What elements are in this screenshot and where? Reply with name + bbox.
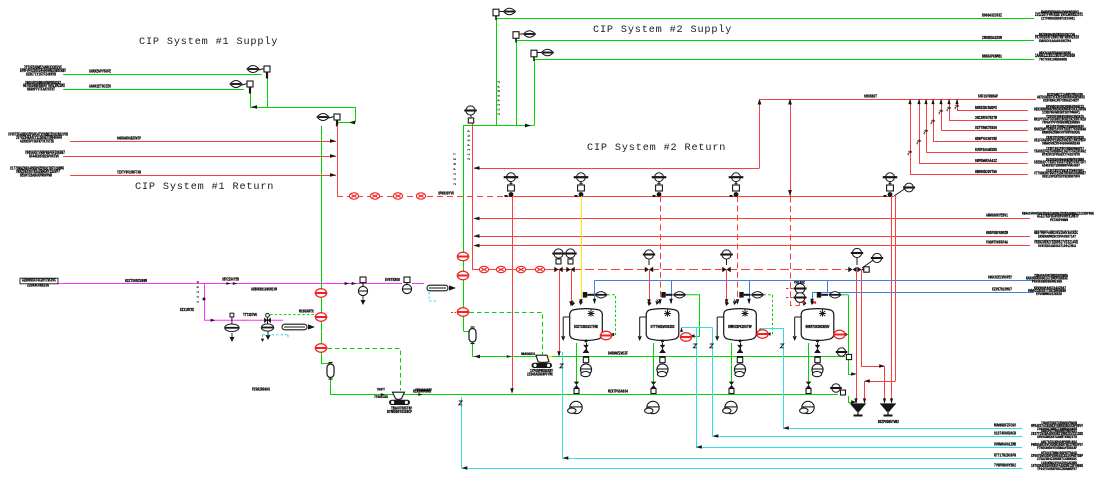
svg-text:DCKYCGDSU1TFHE: DCKYCGDSU1TFHE	[574, 326, 598, 330]
wire fanout vertical x957	[957, 99, 959, 110]
svg-text:04KR4K9ABZ5W7P: 04KR4K9ABZ5W7P	[117, 136, 141, 141]
wire red stub station SC6	[451, 312, 456, 314]
valve LV1 x558.5	[558, 258, 560, 264]
wire fanout branch y130	[941, 130, 1028, 132]
svg-text:3BYZZGCYEN: 3BYZZGCYEN	[222, 278, 239, 283]
svg-text:A34EFEUY2DWBN0VVWU43D7: A34EFEUY2DWBN0VVWU43D7	[1042, 165, 1081, 169]
svg-text:RTR29C2FFEAEX7T4ZEY5YU: RTR29C2FFEAEX7T4ZEY5YU	[1042, 154, 1081, 158]
wire cyan riser x712	[712, 328, 714, 437]
wire CIP1 return 1 y141	[70, 141, 336, 143]
pump lower P x809	[800, 401, 815, 413]
tank TK1 pre-rinse level leg	[563, 317, 570, 336]
tee marks column x740	[737, 353, 743, 357]
wire riser x790	[790, 99, 792, 196]
svg-text:TP44YCVGR3FHSCZBUWWNFS7: TP44YCVGR3FHSCZBUWWNFS7	[1037, 468, 1078, 472]
wire drop x355	[355, 107, 357, 123]
valve TV2 tank2 inlet	[661, 292, 665, 298]
pump lower P x732	[723, 401, 738, 413]
wire drop x496	[496, 18, 498, 126]
wire fanout branch y152	[926, 152, 1028, 154]
arrow at junction y107	[251, 105, 257, 109]
svg-text:3P8N39YVU: 3P8N39YVU	[438, 191, 454, 196]
pump upper P x740	[734, 364, 745, 377]
arrow main1 start	[474, 355, 480, 359]
pump upper P x586	[580, 364, 591, 377]
break mark Z	[693, 344, 696, 348]
valve outlet bowtie x740	[737, 345, 743, 352]
valve HV4 x736	[729, 173, 744, 197]
wire CIP2 supply line 1 y18	[496, 18, 1034, 20]
tank TK4 recovery inlet arrows	[803, 302, 813, 305]
arrow into station T1	[609, 333, 614, 336]
wire drain jog y381	[865, 381, 896, 383]
tick on magenta row1 b	[233, 282, 237, 285]
wire drop tank4 x848	[848, 295, 850, 357]
wire fanout vertical x949	[949, 99, 951, 120]
svg-text:V3GMTV0FKP4A: V3GMTV0FKP4A	[986, 241, 1008, 246]
svg-text:CIP System #2 Return: CIP System #2 Return	[587, 143, 726, 154]
svg-text:8V3VX554A50X471091ZHCA: 8V3VX554A50X471091ZHCA	[1038, 245, 1076, 249]
svg-text:SXMXEGPY5UFE: SXMXEGPY5UFE	[89, 69, 111, 74]
tee marks column x817.5	[815, 353, 821, 357]
valve box below main1 x740	[737, 357, 742, 362]
wire drain riser x861	[861, 270, 863, 367]
svg-text:V6FT: V6FT	[377, 389, 386, 393]
svg-text:5HF1SVRNSGP: 5HF1SVRNSGP	[978, 95, 998, 100]
crossing circle X1 y196	[349, 193, 358, 199]
filter F1 inline x472	[469, 327, 476, 344]
valve mid bowtie x732	[729, 382, 735, 389]
svg-text:EFUSNMMK22ZKRZH: EFUSNMMK22ZKRZH	[1036, 293, 1063, 297]
drain arrow below M3	[230, 333, 234, 341]
valve outlet bowtie x817.5	[815, 345, 821, 352]
wire cyan riser x783	[783, 328, 785, 428]
wire dashed return header y196	[337, 196, 508, 198]
svg-text:ANWS88KYEBV1: ANWS88KYEBV1	[986, 214, 1008, 219]
svg-text:R1KSM0MS9B: R1KSM0MS9B	[413, 389, 431, 394]
tank TK3 acid level leg	[717, 317, 724, 336]
valve M2 on magenta y283	[402, 277, 411, 294]
valve TV1 tank1 inlet	[583, 292, 587, 298]
svg-text:BEZP9DR5TWBZ: BEZP9DR5TWBZ	[878, 420, 899, 425]
svg-text:HHEM78XGNCRKHV: HHEM78XGNCRKHV	[806, 326, 830, 330]
wire cyan dashed stub near M2	[429, 292, 438, 301]
valve M1 on magenta y283	[358, 277, 367, 296]
svg-text:M2X7PSSA634: M2X7PSSA634	[608, 389, 628, 394]
svg-text:RF44KD3VBZ6P96TWV: RF44KD3VBZ6P96TWV	[29, 155, 59, 159]
svg-text:S1374U9XUACR: S1374U9XUACR	[994, 432, 1016, 437]
svg-text:GVUP2AA4KUKG: GVUP2AA4KUKG	[975, 148, 997, 153]
svg-text:CMV9XGRKH4YAAWMTK9NZ57H: CMV9XGRKH4YAAWMTK9NZ57H	[1037, 436, 1078, 440]
wire blue line 2 y292	[812, 292, 1034, 294]
wire top red header y99	[760, 99, 1037, 101]
wire magenta branch y320	[204, 319, 283, 321]
jump marks on fanout verticals	[908, 151, 912, 155]
valve mid bowtie x654	[651, 382, 657, 389]
wire dashed green signal to pump P1	[328, 349, 401, 391]
wire CIP1 supply line A y74	[63, 74, 262, 76]
wire CIP1 supply header y107	[250, 107, 355, 109]
svg-text:B96843ZC53Z: B96843ZC53Z	[982, 13, 1002, 18]
tick on magenta 1	[345, 282, 350, 285]
valve box above main2 x577	[574, 389, 579, 394]
pump lower P x654	[645, 401, 660, 413]
valve V5 CIP2 supply 2	[513, 31, 536, 43]
arrow y168 left end	[474, 166, 480, 170]
svg-text:2CIPSUP: 2CIPSUP	[468, 130, 472, 160]
wire fanout branch y141	[933, 141, 1028, 143]
pump upper P x662.5	[657, 364, 668, 377]
wire stub tank4 valve	[841, 294, 848, 296]
valve HV2 x581	[574, 173, 589, 197]
valve box above main2 x732	[729, 389, 734, 394]
wire blue drop tank2 x671	[671, 281, 673, 304]
wire dashed red feed tank2 x660	[660, 196, 662, 303]
arrow into station T4	[841, 333, 846, 336]
valve M4 bowtie	[264, 318, 271, 324]
svg-text:2CIPRET: 2CIPRET	[454, 153, 458, 185]
wire drain riser x864	[864, 381, 866, 403]
break mark Z	[459, 401, 462, 405]
wire dotted green y314	[270, 314, 317, 316]
drain arrow below M4	[266, 332, 270, 340]
wire riser x321 lower jog	[322, 332, 331, 365]
wire drain riser x891	[891, 196, 893, 403]
valve RV x472 y110	[470, 115, 472, 118]
tee marks column x662.5	[660, 353, 666, 357]
wire tank outlet x662.5	[662, 343, 664, 352]
svg-text:428HC5PY3KFN7YK75TEK: 428HC5PY3KFN7YK75TEK	[20, 140, 54, 144]
pump CP2 cluster on main1	[536, 355, 549, 362]
wire red riser x512 to main2	[512, 196, 514, 392]
station SC6 x463 y312	[457, 308, 469, 317]
valve HV3 x659	[652, 173, 667, 197]
svg-text:P8S3K6BKDB50MZ8EH: P8S3K6BKDB50MZ8EH	[1032, 281, 1063, 285]
svg-text:5MMKXKPK2KGTHF: 5MMKXKPK2KGTHF	[728, 326, 752, 330]
arrow return3	[330, 173, 336, 177]
svg-text:RT717N2DC8FN: RT717N2DC8FN	[994, 454, 1016, 459]
wire fanout branch y120	[949, 120, 1028, 122]
valve HV1 x511	[504, 173, 519, 197]
wire tank outlet x586	[586, 343, 588, 352]
wire fanout vertical x926	[926, 99, 928, 152]
svg-text:3HWW3VNZHY4436G4H5R24H: 3HWW3VNZHY4436G4H5R24H	[1042, 143, 1081, 147]
break mark Z	[780, 344, 783, 348]
wire CIP1 return 2 y156	[63, 156, 336, 158]
arrow riser x790 top	[788, 99, 792, 105]
wire CIP1 supply line B y89	[63, 89, 244, 91]
svg-text:7FSD5CRX: 7FSD5CRX	[374, 396, 388, 400]
wire CIP2 return y168	[474, 168, 760, 170]
svg-text:KZ21MYXE: KZ21MYXE	[180, 309, 194, 313]
station T3 x762	[756, 330, 768, 339]
svg-text:3HCXMVU7N2TM: 3HCXMVU7N2TM	[975, 116, 997, 121]
wire tank column drop x732	[731, 343, 733, 395]
svg-text:PZGR2RG9AS: PZGR2RG9AS	[252, 388, 270, 393]
valve box above main2 x809	[806, 389, 811, 394]
svg-text:WD9PYAC6GYRE: WD9PYAC6GYRE	[975, 137, 997, 142]
valve V3 CIP1 supply C	[317, 114, 340, 127]
break mark Z	[560, 364, 563, 368]
arrow on magenta branch	[211, 319, 216, 322]
svg-text:NNSKAPK8MB1: NNSKAPK8MB1	[982, 54, 1002, 59]
station SC5 x463 y275	[457, 271, 469, 280]
instrument stack above tank4	[794, 284, 807, 294]
svg-text:UCFTRWK7E5S6: UCFTRWK7E5S6	[975, 126, 997, 131]
wire green main 1 y356 CIP supply	[473, 356, 846, 358]
valve mid bowtie x809	[806, 382, 812, 389]
drain funnel 2	[881, 404, 895, 416]
wire x848 lower	[848, 360, 850, 375]
valve V6 CIP2 supply 3	[531, 49, 554, 61]
pump upper P x817.5	[812, 364, 823, 377]
valve TV3 tank3 inlet	[739, 292, 743, 298]
valve V2 CIP1 supply B	[230, 81, 253, 94]
crossing circle Y1 y269	[479, 266, 488, 272]
wire cyan return y447	[696, 447, 1022, 449]
wire tank column drop x577	[576, 343, 578, 395]
arrow riser x759	[758, 99, 762, 105]
wire fanout branch y163	[919, 163, 1028, 165]
svg-text:B7MHDBGY5XG8CP: B7MHDBGY5XG8CP	[387, 411, 412, 415]
svg-text:HSR0PTVTFAAYUTHT: HSR0PTVTFAAYUTHT	[27, 88, 55, 92]
wire red drop x559 to main1	[559, 270, 561, 356]
valve outlet bowtie x586	[583, 345, 589, 352]
wire tank outlet x740	[740, 343, 742, 352]
wire long green riser x321	[321, 126, 323, 331]
valve LV4 x726.5	[726, 259, 728, 265]
wire cyan dashed stub near M4	[263, 335, 289, 339]
tank TK1 pre-rinse	[570, 309, 603, 343]
wire green main 2 y394 CIP supply	[330, 394, 838, 396]
wire cyan tap tank2 y327	[682, 327, 713, 329]
crossing circle X3 y196	[393, 193, 402, 199]
wire return header y196	[508, 196, 894, 198]
crossing circle Y3 y269	[516, 266, 525, 272]
tank TK2 caustic inlet arrows	[648, 302, 658, 305]
wire into valve C y122	[338, 122, 355, 124]
thermowell TW2 y327	[282, 324, 307, 330]
svg-text:H9DFKBFG8MZM: H9DFKBFG8MZM	[986, 231, 1008, 236]
wire drain jog y366	[861, 366, 885, 368]
svg-text:ZMUDED43ZGM: ZMUDED43ZGM	[982, 36, 1002, 41]
svg-text:BEUHYZBABAXPMDVPWH: BEUHYZBABAXPMDVPWH	[20, 174, 52, 178]
svg-text:YZXTY8V2UHF7AB: YZXTY8V2UHF7AB	[117, 170, 141, 175]
wire cyan tap tank3 y328	[760, 328, 783, 330]
svg-text:2ZTFHDKHZBDN728196K1: 2ZTFHDKHZBDN728196K1	[1041, 17, 1075, 21]
wire magenta supply y283 seg2	[345, 283, 402, 285]
wire return branch y218	[474, 218, 1030, 220]
wire magenta supply y283 seg3	[412, 283, 424, 285]
wire riser x759 to top header	[759, 99, 761, 168]
svg-text:3E91Z0PEK7E9TH29DR7UF0: 3E91Z0PEK7E9TH29DR7UF0	[1042, 176, 1081, 180]
svg-text:98GCXCE2VK9PEY: 98GCXCE2VK9PEY	[988, 276, 1012, 281]
wire blue drop tank4 x812	[812, 293, 814, 304]
svg-text:U1NCKB41FS7CK9AZC4KCY: U1NCKB41FS7CK9AZC4KCY	[1043, 100, 1080, 104]
wire filter outlet x472	[472, 342, 474, 357]
svg-text:AUBUK0D1G0UM1VM: AUBUK0D1G0UM1VM	[251, 287, 277, 292]
wire drain riser x884	[884, 366, 886, 403]
wire dashed drop tank3 x772	[764, 295, 773, 335]
break mark Z	[710, 344, 713, 348]
arrow into station T3	[765, 332, 770, 335]
tank TK4 recovery level leg	[795, 317, 802, 336]
wire cyan riser x461	[461, 397, 463, 468]
station SC4 x463 y256	[457, 252, 469, 261]
valve HV5 x890	[883, 173, 898, 197]
tick on main1	[507, 355, 511, 358]
svg-text:MC8UAMTC: MC8UAMTC	[299, 310, 314, 315]
wire red riser x337	[337, 125, 339, 196]
crossing circle Y4 y269	[535, 266, 544, 272]
wire x848 below main2	[848, 396, 850, 402]
svg-text:2CIPSUP2: 2CIPSUP2	[498, 81, 502, 115]
svg-text:UVHWHA9S1ZMB: UVHWHA9S1ZMB	[994, 443, 1016, 448]
wire stub to station T4	[844, 334, 849, 336]
valve mid bowtie x577	[574, 382, 580, 389]
wire drop x534	[534, 59, 536, 126]
valve LV2 x570.5	[570, 258, 572, 264]
wire tank4 feed stub	[799, 303, 801, 306]
wire stub to drain riser	[848, 374, 854, 376]
wire red feed tank2 x649	[649, 270, 651, 304]
valve box below main1 x817.5	[815, 357, 820, 362]
wire cyan return y468	[462, 468, 1023, 470]
wire blue line 1 y280	[595, 280, 1035, 282]
svg-text:CIP System #1 Supply: CIP System #1 Supply	[139, 36, 278, 48]
filter F2 inline x330	[327, 363, 334, 380]
wire cyan return y458	[563, 458, 1023, 460]
wire lower return header dashed y269	[572, 269, 850, 271]
wire lower return header y269	[472, 269, 572, 271]
wire fanout branch y110	[957, 110, 1028, 112]
wire cyan riser x696	[696, 328, 698, 448]
svg-text:GB4UWUCS: GB4UWUCS	[521, 353, 535, 357]
arrow riser x790 bottom	[788, 190, 792, 196]
svg-text:2Z8G5A5NS0PFYMC: 2Z8G5A5NS0PFYMC	[527, 374, 553, 378]
wire stub to funnel	[848, 402, 854, 404]
svg-text:CIP System #2 Supply: CIP System #2 Supply	[593, 24, 732, 36]
valve box above main2 x654	[651, 389, 656, 394]
valve TV4 tank4 inlet	[817, 292, 821, 298]
wire CIP2 supply collector y125	[463, 125, 534, 127]
svg-text:22UK4C6KH23G: 22UK4C6KH23G	[27, 285, 49, 289]
station SC3 x321 y348	[315, 344, 327, 353]
valve outlet bowtie x662.5	[660, 345, 666, 352]
tick on magenta row1 a	[226, 282, 230, 285]
arrow return2	[330, 154, 336, 158]
wire drop from valve B x250	[250, 93, 252, 107]
valve V1 CIP1 supply A	[247, 66, 270, 79]
wire drop x516	[516, 41, 518, 126]
wire yellow tick at pump P2	[545, 356, 552, 358]
wire cyan return y428	[783, 428, 1022, 430]
drain arrow below M1	[361, 296, 365, 304]
wire fanout vertical x919	[919, 99, 921, 163]
wire drain riser x856	[856, 270, 858, 404]
wire tank column drop x654	[653, 343, 655, 395]
svg-text:FKTAKP9NWN: FKTAKP9NWN	[1050, 219, 1069, 223]
wire blue drop x827	[827, 281, 829, 293]
arrow return1	[330, 139, 336, 143]
station SC1 x321 y293	[315, 289, 327, 298]
svg-text:CIP System #1 Return: CIP System #1 Return	[135, 182, 274, 193]
valve HV5 tilted companion	[894, 188, 906, 196]
wire filter2 outlet x330	[330, 378, 332, 395]
wire dashed green signal to pump P2	[470, 313, 543, 355]
wire fanout branch y174	[910, 174, 1028, 176]
svg-text:N9ERZBC5WDPX: N9ERZBC5WDPX	[975, 106, 997, 111]
wire CIP1 return 3 y175	[70, 175, 336, 177]
station T2 x686	[680, 333, 692, 342]
valve LV3 x649	[648, 259, 650, 265]
wire cyan return y436	[713, 436, 1023, 438]
svg-text:WBHGKB3DVTWA: WBHGKB3DVTWA	[975, 170, 997, 175]
yellow tick near magenta	[242, 319, 247, 321]
wire drain riser x895	[895, 196, 897, 381]
wire CIP2 supply line 2 y40	[516, 40, 1034, 42]
valve M4 on magenta y320	[261, 313, 273, 331]
wire green riser x463	[463, 126, 465, 332]
tank TK3 acid	[724, 309, 757, 343]
wire CIP2 supply line 3 y59	[534, 59, 1034, 61]
tank TK1 pre-rinse inlet arrows	[572, 302, 582, 305]
svg-text:5V9TKRG8: 5V9TKRG8	[385, 278, 400, 283]
wire red feed tank3 x726	[726, 270, 728, 304]
svg-text:112HW: 112HW	[197, 280, 201, 303]
valve M3 on magenta y320	[225, 313, 239, 331]
station T4 x839	[833, 330, 845, 339]
wire blue drop tank1 x594	[594, 281, 596, 304]
wire blue drop tank3 x749	[749, 281, 751, 304]
tee marks column x586	[583, 353, 589, 357]
wire dashed red feed tank3 x737	[737, 196, 739, 303]
wire drop from valve A x267	[267, 78, 269, 107]
svg-text:5WUU5V1A6AS92HX7M4: 5WUU5V1A6AS92HX7M4	[1039, 40, 1071, 44]
wire fanout vertical x933	[933, 99, 935, 141]
wire dashed drop tank1 x615	[608, 295, 616, 335]
svg-text:F7HUS80B9YE8RBGAYESB1BF: F7HUS80B9YE8RBGAYESB1BF	[1037, 447, 1078, 451]
drain funnel 1	[851, 404, 865, 416]
valve box below main1 x662.5	[660, 357, 665, 362]
svg-text:STY70H2W6303D3: STY70H2W6303D3	[651, 326, 675, 330]
svg-text:6HCK6DT: 6HCK6DT	[864, 95, 877, 100]
svg-text:VHZ4DZ: VHZ4DZ	[794, 282, 805, 286]
svg-text:8ZRC71Y157FZ46HYR: 8ZRC71Y157FZ46HYR	[26, 73, 56, 77]
tank TK4 recovery	[801, 309, 834, 343]
wire magenta riser x204	[204, 284, 206, 321]
thermowell TW1 y288	[427, 285, 448, 291]
crossing circle X4 y196	[416, 193, 425, 199]
tick on magenta 2	[352, 282, 357, 285]
wire yellow feed tank1 x581	[581, 196, 583, 303]
arrow to funnel	[851, 400, 857, 403]
crossing circle X2 y196	[370, 193, 379, 199]
svg-text:7YNPKN99YBK2: 7YNPKN99YBK2	[994, 464, 1016, 469]
wire red riser x472	[472, 123, 474, 270]
wire magenta supply y283	[58, 283, 345, 285]
svg-text:RRRRDUZRBGCGTFDNYBDAXE: RRRRDUZRBGCGTFDNYBDAXE	[1042, 132, 1081, 136]
wire tank outlet x817.5	[817, 343, 819, 352]
svg-text:08PEWWEAA42Z: 08PEWWEAA42Z	[975, 159, 997, 164]
valve box below main1 x586	[583, 357, 588, 362]
svg-text:D4R0WEZWCZF: D4R0WEZWCZF	[608, 352, 628, 357]
station SC2 x321 y317	[315, 313, 327, 322]
svg-text:H2ZTU6RCU80M: H2ZTU6RCU80M	[125, 279, 147, 284]
wire cyan riser x562	[562, 352, 564, 458]
valve V4 CIP2 supply 1	[493, 8, 516, 20]
tank TK3 acid inlet arrows	[726, 302, 736, 305]
